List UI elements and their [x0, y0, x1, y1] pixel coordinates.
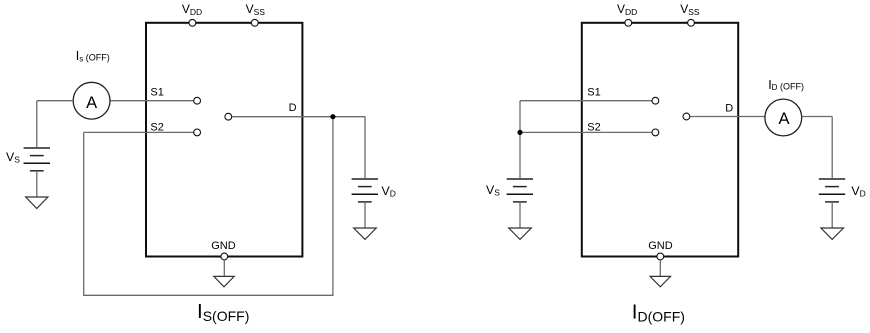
wire GND stub (right) [659, 260, 661, 276]
svg-text:VS: VS [486, 183, 500, 198]
wire S1 (right) [520, 100, 652, 102]
pin D terminal (right) [683, 113, 690, 120]
svg-text:S1: S1 [150, 87, 163, 99]
pin VSS terminal (right) [688, 19, 695, 26]
pin S1 terminal (left) [194, 97, 201, 104]
pin S1 terminal (right) [652, 97, 659, 104]
svg-text:VS: VS [6, 150, 20, 165]
wire D node down [332, 117, 334, 296]
svg-text:ID (OFF): ID (OFF) [768, 78, 804, 92]
svg-text:D: D [289, 102, 297, 114]
wire bottom loop [83, 294, 333, 296]
svg-text:VD: VD [382, 184, 396, 199]
ammeter A1 [73, 82, 110, 119]
battery VD (right) [819, 179, 845, 202]
svg-text:ID(OFF): ID(OFF) [632, 300, 685, 324]
svg-text:GND: GND [211, 240, 236, 252]
pin S2 terminal (left) [194, 129, 201, 136]
svg-text:VDD: VDD [617, 2, 637, 17]
wire S net down (right) [519, 101, 521, 179]
battery VS (right) [507, 179, 533, 202]
svg-text:IS(OFF): IS(OFF) [197, 300, 249, 324]
svg-text:S2: S2 [587, 122, 600, 134]
svg-text:A: A [778, 110, 789, 128]
battery VD (left) [352, 179, 378, 202]
wire S2 (right) [520, 131, 652, 133]
wire ammeter to VD (right) [802, 116, 833, 118]
wire GND stub (left) [223, 260, 225, 276]
wire S2 loop down [83, 132, 85, 295]
ground VS (left) [26, 197, 48, 209]
pin VDD terminal (right) [625, 19, 632, 26]
svg-text:A: A [86, 94, 97, 112]
DUT box U1 (IS(OFF) test) [146, 23, 302, 257]
wire VS to ammeter [37, 100, 73, 102]
wire S2 corner to terminal [84, 131, 194, 133]
svg-text:S1: S1 [587, 87, 600, 99]
DUT box U2 (ID(OFF) test) [582, 23, 738, 257]
svg-text:D: D [725, 102, 733, 114]
svg-text:VDD: VDD [182, 2, 202, 17]
wire VD battery to ground (right) [831, 202, 833, 228]
junction dot S2 node [517, 130, 522, 135]
junction dot D node [330, 114, 335, 119]
pin GND terminal (left) [221, 253, 228, 260]
wire ammeter to S1 [110, 100, 194, 102]
pin VDD terminal (left) [189, 19, 196, 26]
wire VD drop (right) [831, 117, 833, 179]
svg-text:VD: VD [851, 184, 865, 199]
wire VS battery to ground [36, 171, 38, 197]
pin D terminal (left) [225, 113, 232, 120]
svg-text:VSS: VSS [246, 2, 266, 17]
ammeter A2 [765, 99, 802, 136]
pin GND terminal (right) [657, 253, 664, 260]
wire VS drop [36, 101, 38, 148]
ground GND (right) [650, 276, 670, 286]
wire D to ammeter (right) [690, 116, 765, 118]
battery VS (left) [24, 148, 50, 171]
ground VD (left) [354, 228, 377, 239]
svg-text:Is (OFF): Is (OFF) [76, 49, 110, 63]
wire VD drop (left) [364, 117, 366, 179]
pin VSS terminal (left) [251, 19, 258, 26]
svg-text:GND: GND [648, 240, 673, 252]
ground VS (right) [509, 228, 532, 239]
wire VD battery to ground (left) [364, 202, 366, 228]
ground VD (right) [821, 228, 844, 239]
ground GND (left) [214, 276, 234, 286]
svg-text:S2: S2 [150, 122, 163, 134]
svg-text:VSS: VSS [680, 2, 700, 17]
wire D to VD corner [232, 116, 365, 118]
wire VS battery to ground (right) [519, 202, 521, 228]
pin S2 terminal (right) [652, 129, 659, 136]
